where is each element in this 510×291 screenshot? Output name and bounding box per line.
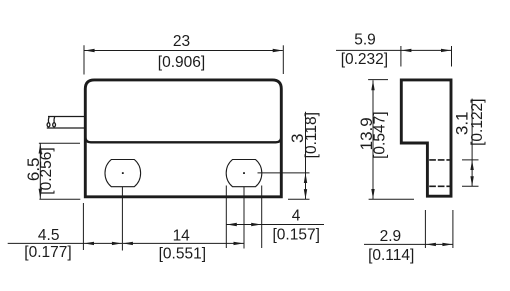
svg-text:[0.551]: [0.551] [159,246,206,263]
lead wire [48,116,85,118]
svg-text:2.9: 2.9 [380,228,402,245]
svg-text:[0.118]: [0.118] [303,112,320,158]
dim 2.9 arrow right [442,243,452,246]
dim 6.5 arrow up [39,144,42,154]
hole H1 [105,160,141,187]
svg-text:[0.157]: [0.157] [272,227,319,244]
dim 4 arrow right [251,223,261,226]
dim 23 line [85,50,283,52]
lead wire break squiggle 2 [53,116,56,122]
dim 3.1 line [471,99,473,187]
dim 3.1 arrow up [470,160,473,170]
svg-text:[0.177]: [0.177] [24,244,71,261]
dim 14 arrow left [123,242,133,245]
dim 23 arrow right [273,49,283,52]
dim 13.9 line [372,80,374,199]
svg-text:4: 4 [292,207,301,224]
svg-text:23: 23 [173,33,190,50]
dim 4.5 arrow right [112,242,122,245]
dim 3 arrow down [304,189,307,199]
svg-text:4.5: 4.5 [38,227,60,244]
dim 2.9 ext line right [452,210,454,248]
svg-text:[0.906]: [0.906] [158,54,205,71]
dim 14 line [123,242,244,244]
dim 4 arrow left [227,223,237,226]
hole H2 centerline extension [243,187,245,249]
dim 23 ext line right [282,45,284,74]
dim 5.9 ext line right [451,46,453,67]
dim 23 ext line left [83,45,85,74]
lead wire break squiggle 1 [47,116,50,122]
svg-text:[0.122]: [0.122] [469,98,486,145]
dim 5.9 arrow right [441,49,451,52]
dim 3.1 ext line top [462,159,479,161]
dim 2.9 ext line left [424,210,426,248]
dim 2.9 arrow left [426,243,436,246]
front view body outline [85,80,281,197]
dim 5.9 arrow left [401,49,411,52]
dim 13.9 arrow up [371,80,374,90]
dim 4.5 arrow left [84,242,94,245]
dim 6.5 ext line top [39,142,80,144]
front view body/flange separation line [85,137,281,143]
dim 13.9 arrow down [371,189,374,199]
dim 4 line [226,224,324,226]
hole H1 center dot [122,172,124,174]
dim 3.1 ext line bottom [462,185,479,187]
dim 6.5 arrow down [39,189,42,199]
dim 3.1 arrow down [470,176,473,186]
dim 4.5 ext line (body left) [82,203,84,250]
dim 3 ext line bottom [288,198,310,200]
dim 4.5 line [8,242,123,244]
svg-text:[0.232]: [0.232] [341,51,388,68]
dim 5.9 ext line left [400,46,402,67]
dim 14 arrow right [234,242,244,245]
dim 3 ext line top (hole2 centerline) [258,172,310,174]
dim 13.9 ext line top [368,79,388,81]
dim 6.5 line [39,144,41,199]
hole H1 centerline extension [121,187,123,251]
svg-text:[0.547]: [0.547] [372,111,389,158]
dim 6.5 ext line bottom [39,198,80,200]
dim 3 line [305,112,307,199]
dim 5.9 line [336,49,452,51]
hole H2 edge ext right [261,186,263,249]
svg-text:14: 14 [173,227,191,244]
svg-text:[0.256]: [0.256] [38,147,55,194]
svg-text:[0.114]: [0.114] [368,247,414,264]
hole H2 [226,160,262,187]
dim 13.9 ext line bottom [369,198,414,200]
svg-text:5.9: 5.9 [354,32,376,49]
side view outline [401,80,451,196]
hole H2 center dot [243,172,245,174]
hole H2 edge ext left [225,186,227,249]
side view hidden hole line bottom [429,185,450,187]
dim 23 arrow left [85,49,95,52]
side view hidden hole line top [429,159,450,161]
dim 3 arrow up [304,173,307,183]
dim 2.9 line [364,243,453,245]
